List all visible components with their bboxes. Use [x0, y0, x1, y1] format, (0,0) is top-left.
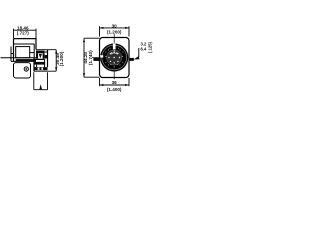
pin contacts: [105, 47, 123, 68]
shell inner wall: [14, 44, 35, 59]
barrel bottom line: [34, 70, 56, 72]
barrel top leader: [36, 49, 56, 51]
barrel outline: [34, 50, 48, 71]
svg-text:30: 30: [112, 23, 118, 28]
cable leader line: [1, 57, 37, 59]
dimension line top-left: [14, 29, 37, 39]
top keyway notch: [113, 43, 116, 49]
svg-text:6.4: 6.4: [140, 47, 146, 52]
dimension text 18.46: [17, 25, 29, 35]
connector face outer circle: [100, 43, 128, 71]
tab leader arrow: [138, 48, 140, 57]
left keyway notch: [100, 55, 103, 57]
shell left step: [11, 47, 36, 62]
shell dark band: [16, 59, 36, 61]
vertical dimension 44.20: [84, 38, 100, 77]
svg-text:(1.200): (1.200): [59, 51, 64, 66]
shell inner cavity: [16, 47, 30, 58]
bottom dimension 35.56: [100, 78, 130, 86]
barrel mid verticals: [37, 59, 45, 67]
front view flange square: [100, 38, 130, 78]
bottom dim arrow: [39, 84, 42, 89]
tab labels: [140, 41, 152, 53]
svg-text:(.727): (.727): [17, 30, 29, 35]
barrel key socket: [45, 52, 48, 55]
vertical dimension 30.48: [55, 50, 57, 71]
centerline vertical: [113, 34, 115, 79]
svg-text:(.125): (.125): [148, 41, 153, 53]
right polarizing tab: [129, 58, 134, 61]
centerline horizontal: [92, 57, 100, 59]
svg-text:(1.400): (1.400): [107, 87, 122, 92]
housing logo glyph: [24, 67, 28, 71]
top dimension 30.48: [100, 26, 130, 36]
connector shell side view: [14, 39, 37, 61]
bottom dimension bracket: [34, 72, 48, 90]
face ring highlights: [102, 45, 127, 70]
svg-text:36: 36: [112, 80, 118, 85]
svg-text:(1.200): (1.200): [107, 30, 122, 35]
lower housing box: [14, 63, 31, 78]
barrel key contact: [36, 51, 45, 59]
barrel dark band A: [34, 62, 45, 65]
barrel dark band B: [34, 67, 48, 70]
left polarizing tab: [93, 58, 100, 61]
face center highlight dot: [114, 50, 115, 51]
